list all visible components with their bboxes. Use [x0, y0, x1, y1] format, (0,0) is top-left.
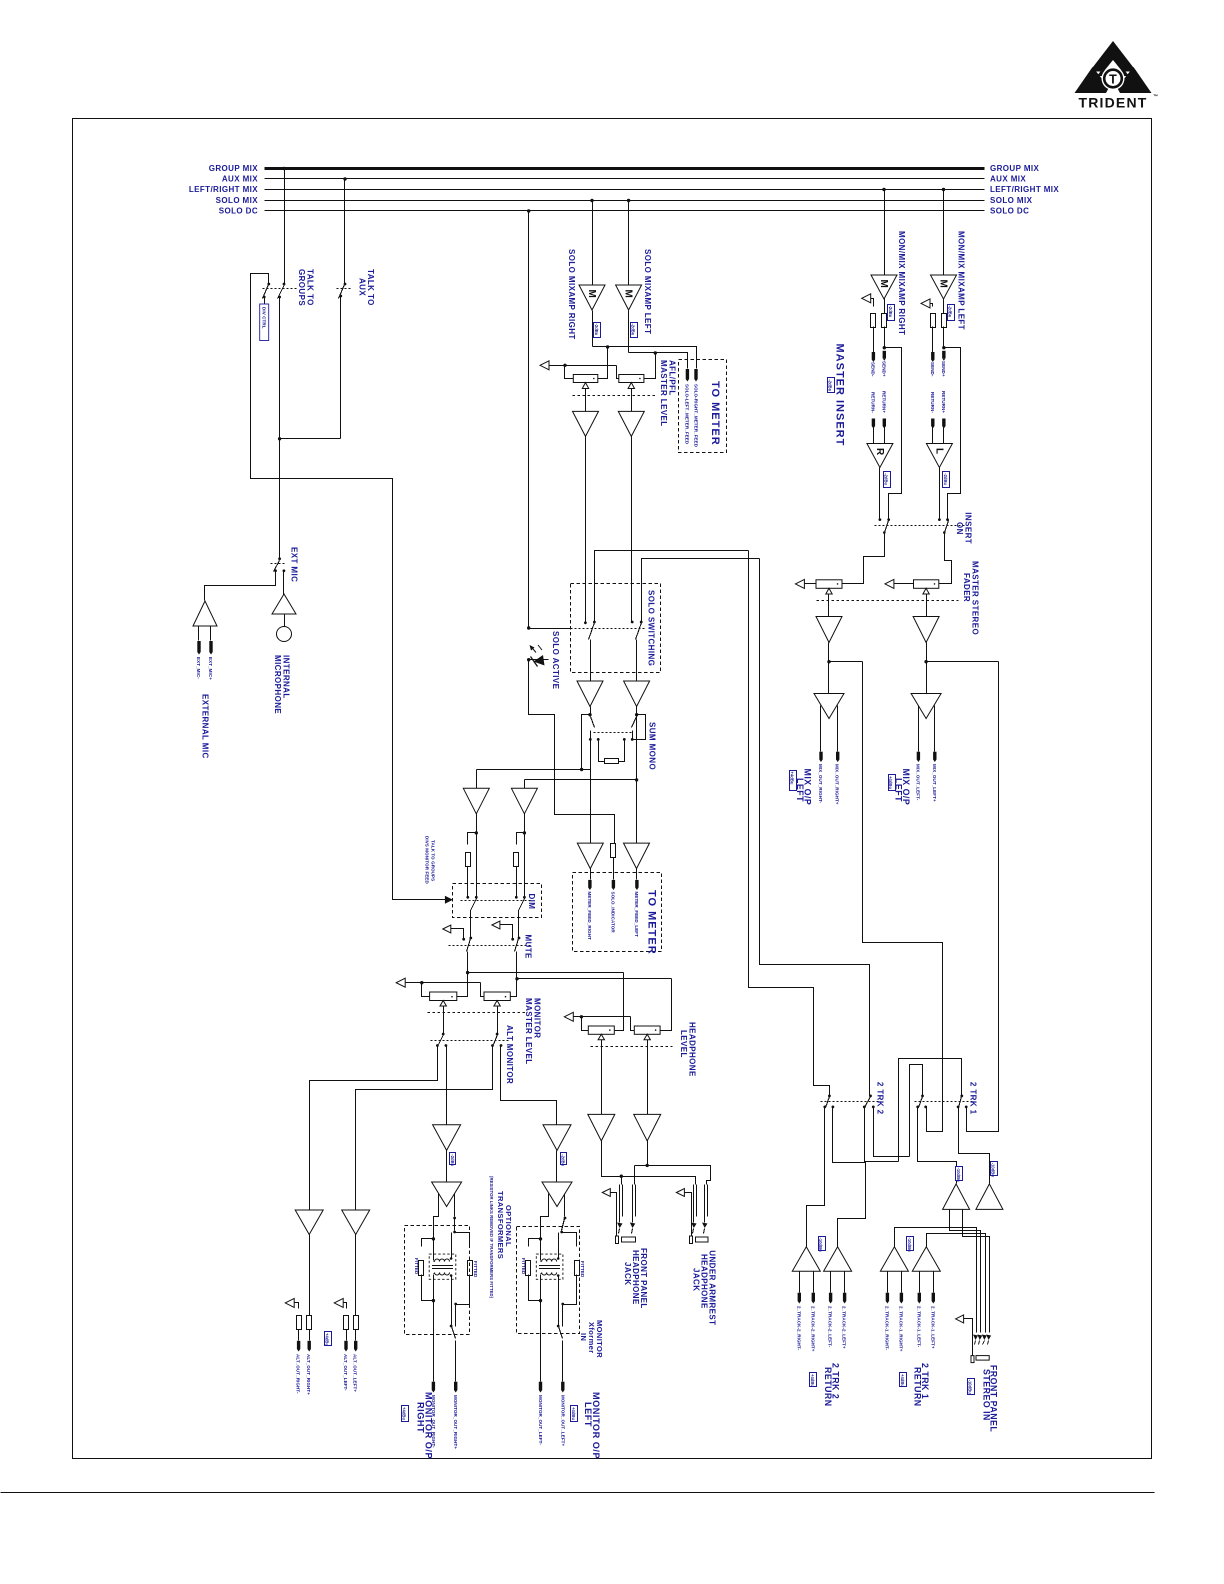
- svg-text:2_TRACK-2_LEFT+: 2_TRACK-2_LEFT+: [842, 1306, 847, 1349]
- svg-text:SOLO_INDICATOR: SOLO_INDICATOR: [610, 892, 615, 934]
- svg-text:ALT MONITOR: ALT MONITOR: [505, 1025, 514, 1084]
- svg-text:MASTER LEVEL: MASTER LEVEL: [524, 998, 533, 1065]
- svg-text:RETURN-: RETURN-: [930, 392, 935, 413]
- svg-text:-2dBu: -2dBu: [884, 473, 889, 485]
- svg-text:-10dBu: -10dBu: [818, 1238, 823, 1253]
- svg-text:2_TRACK-1_RIGHT+: 2_TRACK-1_RIGHT+: [898, 1306, 903, 1352]
- svg-text:GROUP MIX: GROUP MIX: [209, 164, 259, 173]
- svg-text:EXT_MIC-: EXT_MIC-: [196, 657, 201, 679]
- svg-text:-2dBu: -2dBu: [888, 306, 893, 318]
- svg-text:SOLO DC: SOLO DC: [990, 207, 1029, 216]
- svg-text:FITTED: FITTED: [414, 1258, 419, 1275]
- svg-text:MIX_OUT_LEFT-: MIX_OUT_LEFT-: [915, 764, 920, 801]
- svg-text:MASTER INSERT: MASTER INSERT: [834, 344, 846, 447]
- svg-text:EXT MIC: EXT MIC: [290, 547, 299, 582]
- svg-text:M: M: [878, 280, 889, 288]
- svg-text:SOLO-RIGHT_METER_FEED: SOLO-RIGHT_METER_FEED: [693, 384, 698, 448]
- svg-text:2 TRK 2: 2 TRK 2: [876, 1082, 885, 1115]
- svg-text:TRANSFORMERS: TRANSFORMERS: [496, 1191, 505, 1259]
- svg-text:2_TRACK-2_RIGHT+: 2_TRACK-2_RIGHT+: [810, 1306, 815, 1352]
- svg-text:SOLO-LEFT_METER_FEED: SOLO-LEFT_METER_FEED: [685, 384, 690, 445]
- svg-text:+4dBu: +4dBu: [900, 1374, 905, 1387]
- svg-text:-10dBu: -10dBu: [907, 1238, 912, 1253]
- svg-text:METER_FEED_RIGHT: METER_FEED_RIGHT: [587, 892, 592, 941]
- svg-text:GROUP MIX: GROUP MIX: [990, 164, 1040, 173]
- svg-text:-2dBu: -2dBu: [561, 1154, 566, 1166]
- svg-text:SOLO MIXAMP LEFT: SOLO MIXAMP LEFT: [643, 249, 652, 334]
- svg-text:M: M: [586, 290, 597, 298]
- svg-text:SUM MONO: SUM MONO: [648, 722, 657, 770]
- svg-text:-10dBu: -10dBu: [968, 1380, 973, 1395]
- svg-text:+4dBu: +4dBu: [325, 1333, 330, 1346]
- svg-text:-2dBu: -2dBu: [943, 473, 948, 485]
- svg-text:SEND-: SEND-: [870, 362, 875, 377]
- svg-text:RIGHT: RIGHT: [416, 1402, 426, 1433]
- svg-text:AUX: AUX: [358, 278, 367, 296]
- svg-text:MUTE: MUTE: [524, 935, 533, 960]
- svg-text:ALT_OUT_LEFT+: ALT_OUT_LEFT+: [353, 1354, 358, 1392]
- svg-text:MONITOR_OUT_LEFT+: MONITOR_OUT_LEFT+: [560, 1395, 565, 1447]
- svg-text:2_TRACK-2_RIGHT-: 2_TRACK-2_RIGHT-: [796, 1306, 801, 1351]
- svg-text:-2dBu: -2dBu: [450, 1154, 455, 1166]
- svg-text:MON/MIX MIXAMP RIGHT: MON/MIX MIXAMP RIGHT: [897, 231, 906, 335]
- svg-text:EXTERNAL MIC: EXTERNAL MIC: [201, 694, 210, 759]
- svg-text:TRIDENT: TRIDENT: [1078, 95, 1147, 111]
- svg-text:R: R: [874, 448, 885, 456]
- svg-text:AUX MIX: AUX MIX: [222, 175, 258, 184]
- svg-text:JACK: JACK: [692, 1268, 701, 1291]
- svg-text:LEFT/RIGHT MIX: LEFT/RIGHT MIX: [189, 185, 258, 194]
- svg-text:SOLO MIX: SOLO MIX: [990, 196, 1033, 205]
- svg-text:FADER: FADER: [962, 573, 971, 602]
- svg-text:SOLO DC: SOLO DC: [219, 207, 258, 216]
- svg-text:FITTED: FITTED: [521, 1258, 526, 1275]
- svg-text:-10dBu: -10dBu: [956, 1168, 961, 1183]
- svg-text:DIV CTRL: DIV CTRL: [261, 307, 266, 329]
- svg-text:-2dBu: -2dBu: [947, 306, 952, 318]
- svg-text:(RESISTOR LINKS REMOVED IF TRA: (RESISTOR LINKS REMOVED IF TRANSFORMERS …: [489, 1176, 494, 1299]
- svg-text:MASTER LEVEL: MASTER LEVEL: [659, 360, 668, 427]
- svg-text:+4dBu: +4dBu: [888, 776, 893, 789]
- svg-text:ALT_OUT_RIGHT+: ALT_OUT_RIGHT+: [306, 1354, 311, 1395]
- svg-text:-2dBu: -2dBu: [594, 324, 599, 336]
- svg-text:GROUPS: GROUPS: [297, 269, 306, 306]
- svg-text:2_TRACK-1_LEFT+: 2_TRACK-1_LEFT+: [930, 1306, 935, 1349]
- svg-text:RETURN-: RETURN-: [870, 392, 875, 413]
- svg-text:2_TRACK-2_LEFT-: 2_TRACK-2_LEFT-: [828, 1306, 833, 1348]
- svg-text:SOLO MIXAMP RIGHT: SOLO MIXAMP RIGHT: [567, 249, 576, 340]
- svg-text:TALK TO GROUPS: TALK TO GROUPS: [431, 840, 436, 881]
- svg-text:MICROPHONE: MICROPHONE: [273, 655, 282, 714]
- svg-text:EXT_MIC+: EXT_MIC+: [208, 657, 213, 680]
- svg-text:ALT_OUT_RIGHT-: ALT_OUT_RIGHT-: [296, 1354, 301, 1394]
- svg-text:+4dBu: +4dBu: [571, 1407, 576, 1420]
- svg-text:MON/MIX MIXAMP LEFT: MON/MIX MIXAMP LEFT: [957, 231, 966, 330]
- svg-text:SOLO ACTIVE: SOLO ACTIVE: [551, 631, 560, 690]
- svg-text:IN: IN: [579, 1333, 588, 1341]
- svg-text:M: M: [938, 280, 949, 288]
- svg-text:T: T: [1109, 73, 1117, 87]
- svg-text:TO METER: TO METER: [646, 890, 658, 955]
- svg-text:+4dBu: +4dBu: [790, 772, 795, 785]
- svg-text:RETURN: RETURN: [913, 1367, 923, 1407]
- svg-text:LEFT/RIGHT MIX: LEFT/RIGHT MIX: [990, 185, 1059, 194]
- svg-text:2_TRACK-1_LEFT-: 2_TRACK-1_LEFT-: [916, 1306, 921, 1348]
- svg-text:FITTED: FITTED: [580, 1261, 585, 1278]
- svg-text:JACK: JACK: [623, 1262, 632, 1285]
- svg-text:+4dBu: +4dBu: [810, 1374, 815, 1387]
- svg-text:RETURN: RETURN: [823, 1367, 833, 1407]
- svg-text:M: M: [623, 290, 634, 298]
- svg-text:STEREO IN: STEREO IN: [981, 1369, 991, 1421]
- svg-text:AUX MIX: AUX MIX: [990, 175, 1026, 184]
- svg-text:SOLO MIX: SOLO MIX: [216, 196, 259, 205]
- svg-text:-10dBu: -10dBu: [990, 1163, 995, 1178]
- svg-text:RETURN+: RETURN+: [881, 391, 886, 413]
- svg-text:SEND-: SEND-: [930, 362, 935, 377]
- svg-text:DIM: DIM: [527, 894, 536, 910]
- svg-text:-2dBu: -2dBu: [828, 379, 833, 391]
- svg-text:RETURN+: RETURN+: [941, 391, 946, 413]
- svg-text:SEND+: SEND+: [881, 361, 886, 377]
- svg-text:L: L: [933, 448, 944, 454]
- svg-text:MIX_OUT_RIGHT+: MIX_OUT_RIGHT+: [835, 764, 840, 805]
- svg-text:MIX_OUT_RIGHT-: MIX_OUT_RIGHT-: [818, 764, 823, 804]
- svg-text:MONITOR_OUT_RIGHT+: MONITOR_OUT_RIGHT+: [453, 1395, 458, 1449]
- svg-text:-2dBu: -2dBu: [631, 324, 636, 336]
- svg-text:LEFT: LEFT: [583, 1402, 593, 1427]
- svg-text:METER_FEED_LEFT: METER_FEED_LEFT: [634, 892, 639, 938]
- svg-text:ON: ON: [955, 522, 964, 535]
- svg-text:2 TRK 1: 2 TRK 1: [969, 1082, 978, 1115]
- svg-text:DIVS MONITOR FEED: DIVS MONITOR FEED: [425, 836, 430, 885]
- svg-text:LEVEL: LEVEL: [679, 1030, 688, 1058]
- svg-text:MIX_OUT_LEFT+: MIX_OUT_LEFT+: [932, 764, 937, 802]
- svg-text:+4dBu: +4dBu: [401, 1407, 406, 1420]
- svg-text:FITTED: FITTED: [473, 1261, 478, 1278]
- svg-text:MONITOR_OUT_LEFT-: MONITOR_OUT_LEFT-: [538, 1395, 543, 1445]
- svg-text:2_TRACK-1_RIGHT-: 2_TRACK-1_RIGHT-: [884, 1306, 889, 1351]
- svg-text:SEND+: SEND+: [941, 361, 946, 377]
- svg-text:TO METER: TO METER: [709, 381, 721, 446]
- svg-text:ALT_OUT_LEFT-: ALT_OUT_LEFT-: [343, 1354, 348, 1391]
- svg-text:™: ™: [1153, 94, 1158, 100]
- svg-text:SOLO SWITCHING: SOLO SWITCHING: [647, 590, 656, 666]
